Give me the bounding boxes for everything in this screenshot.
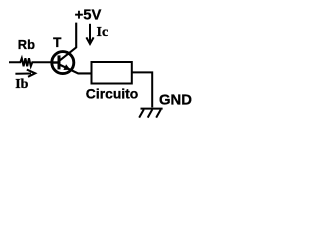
svg-text:GND: GND [159, 93, 192, 109]
svg-text:T: T [53, 35, 62, 50]
svg-text:Rb: Rb [18, 37, 35, 52]
svg-text:Ib: Ib [15, 77, 28, 92]
svg-text:Ic: Ic [97, 25, 109, 40]
svg-text:Circuito: Circuito [86, 86, 138, 102]
svg-text:+5V: +5V [75, 7, 102, 23]
